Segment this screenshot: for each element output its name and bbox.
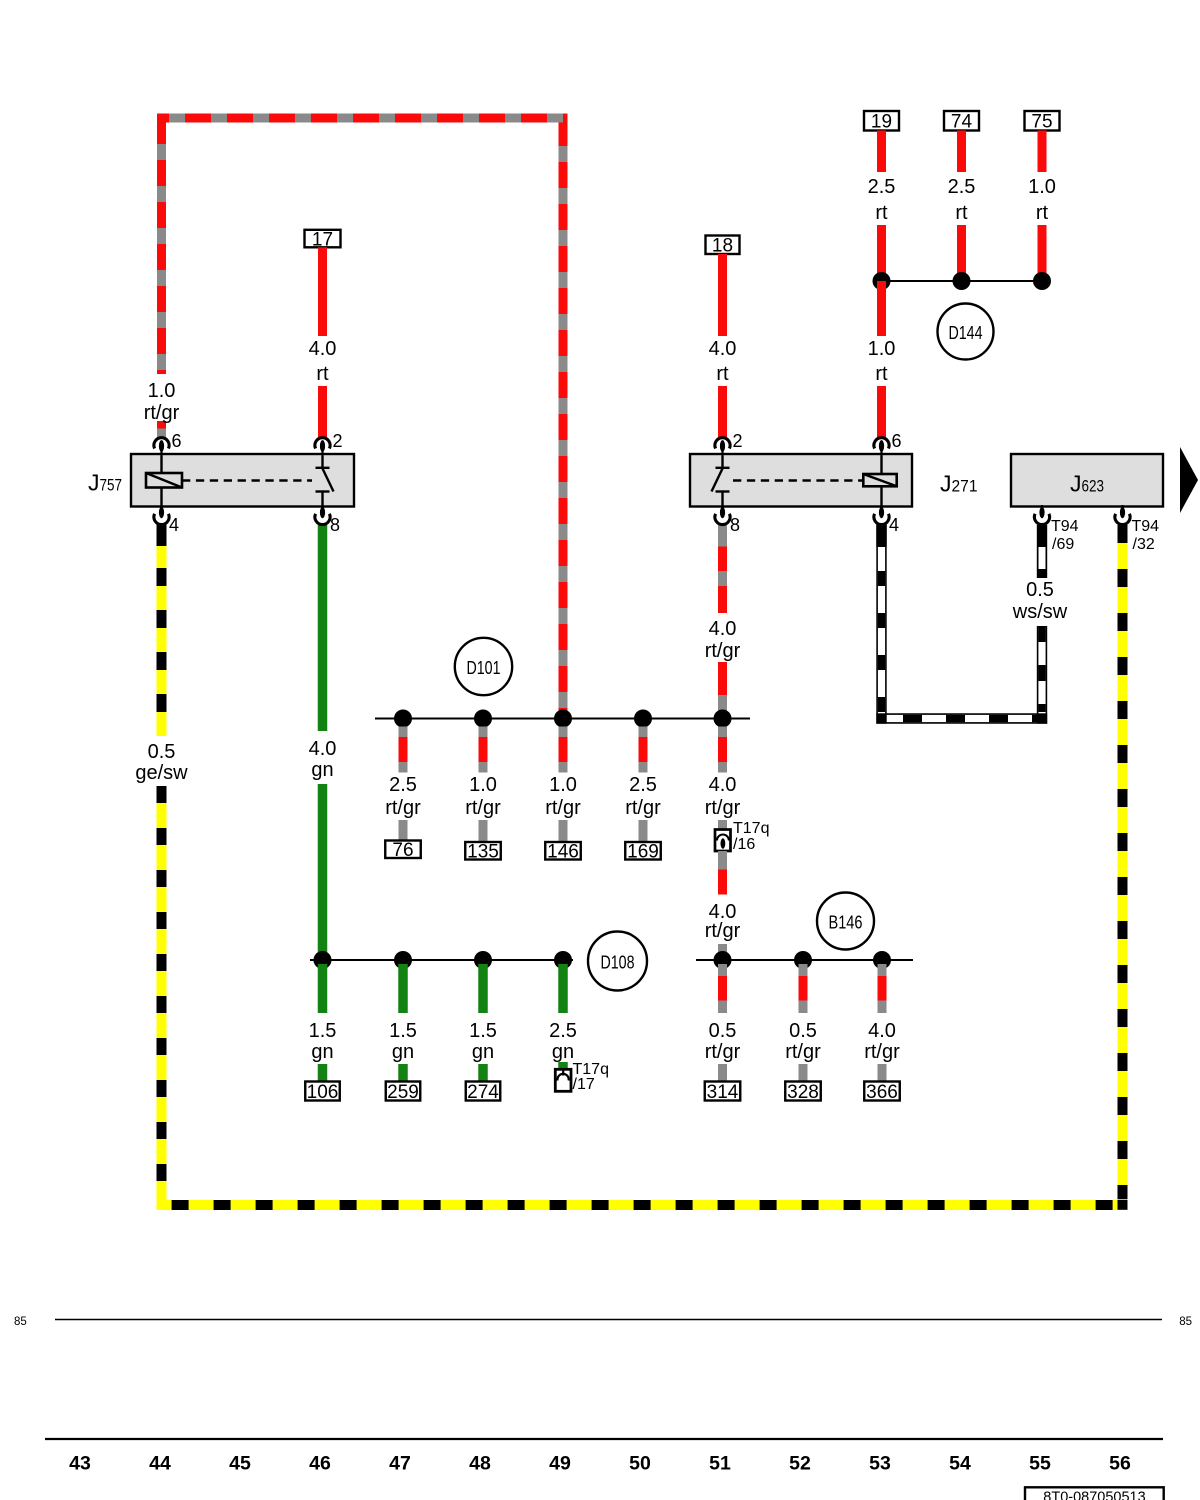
svg-text:rt/gr: rt/gr [705, 640, 741, 662]
svg-text:169: 169 [627, 842, 659, 863]
svg-text:1.5: 1.5 [389, 1020, 417, 1042]
svg-text:50: 50 [629, 1453, 651, 1475]
svg-text:/69: /69 [1052, 536, 1074, 553]
svg-text:17: 17 [312, 229, 333, 250]
svg-text:rt/gr: rt/gr [144, 402, 180, 424]
svg-text:0.5: 0.5 [148, 741, 176, 763]
svg-text:rt: rt [955, 202, 968, 224]
svg-text:4: 4 [169, 515, 179, 535]
svg-text:1.0: 1.0 [868, 338, 896, 360]
svg-text:T17q: T17q [733, 820, 769, 837]
svg-text:/16: /16 [733, 836, 755, 853]
svg-text:D108: D108 [601, 952, 635, 973]
svg-text:ge/sw: ge/sw [135, 762, 188, 784]
svg-text:T94: T94 [1051, 518, 1079, 535]
svg-text:56: 56 [1109, 1453, 1131, 1475]
svg-text:6: 6 [172, 431, 182, 451]
svg-text:8T0-087050513: 8T0-087050513 [1043, 1490, 1145, 1500]
svg-text:rt/gr: rt/gr [785, 1041, 821, 1063]
svg-text:4.0: 4.0 [709, 618, 737, 640]
svg-text:4.0: 4.0 [709, 338, 737, 360]
svg-text:D144: D144 [949, 322, 983, 343]
svg-text:48: 48 [469, 1453, 491, 1475]
svg-text:47: 47 [389, 1453, 411, 1475]
svg-text:51: 51 [709, 1453, 731, 1475]
svg-text:49: 49 [549, 1453, 571, 1475]
svg-text:T94: T94 [1132, 518, 1160, 535]
svg-text:8: 8 [730, 515, 740, 535]
svg-text:rt/gr: rt/gr [705, 1041, 741, 1063]
svg-text:8: 8 [330, 515, 340, 535]
svg-text:146: 146 [547, 842, 579, 863]
svg-text:rt/gr: rt/gr [385, 797, 421, 819]
svg-text:54: 54 [949, 1453, 971, 1475]
svg-text:45: 45 [229, 1453, 251, 1475]
svg-text:0.5: 0.5 [1026, 579, 1054, 601]
svg-text:74: 74 [951, 112, 973, 133]
svg-text:1.0: 1.0 [469, 774, 497, 796]
svg-text:76: 76 [392, 840, 413, 861]
svg-text:4.0: 4.0 [709, 774, 737, 796]
svg-text:rt: rt [875, 363, 888, 385]
svg-text:274: 274 [467, 1082, 499, 1103]
svg-text:0.5: 0.5 [789, 1020, 817, 1042]
svg-text:rt/gr: rt/gr [465, 797, 501, 819]
svg-text:2: 2 [333, 431, 343, 451]
svg-text:19: 19 [871, 112, 892, 133]
svg-text:259: 259 [387, 1082, 419, 1103]
svg-text:52: 52 [789, 1453, 811, 1475]
svg-text:44: 44 [149, 1453, 171, 1475]
svg-text:2.5: 2.5 [948, 176, 976, 198]
svg-text:gn: gn [311, 1041, 333, 1063]
svg-text:43: 43 [69, 1453, 91, 1475]
svg-text:rt/gr: rt/gr [545, 797, 581, 819]
svg-text:gn: gn [392, 1041, 414, 1063]
svg-text:1.5: 1.5 [309, 1020, 337, 1042]
svg-text:D101: D101 [467, 657, 501, 678]
svg-text:18: 18 [712, 236, 733, 257]
svg-text:1.5: 1.5 [469, 1020, 497, 1042]
svg-text:2.5: 2.5 [549, 1020, 577, 1042]
svg-text:gn: gn [311, 759, 333, 781]
svg-text:rt: rt [875, 202, 888, 224]
svg-text:rt/gr: rt/gr [705, 920, 741, 942]
svg-text:55: 55 [1029, 1453, 1051, 1475]
svg-text:/17: /17 [573, 1076, 595, 1093]
svg-text:rt/gr: rt/gr [864, 1041, 900, 1063]
svg-text:0.5: 0.5 [709, 1020, 737, 1042]
svg-text:ws/sw: ws/sw [1012, 601, 1068, 623]
svg-text:85: 85 [1179, 1316, 1192, 1328]
svg-text:rt: rt [716, 363, 729, 385]
svg-text:rt: rt [316, 363, 329, 385]
svg-text:rt/gr: rt/gr [705, 797, 741, 819]
svg-text:4.0: 4.0 [309, 338, 337, 360]
svg-text:/32: /32 [1133, 536, 1155, 553]
svg-text:46: 46 [309, 1453, 331, 1475]
svg-text:gn: gn [472, 1041, 494, 1063]
svg-text:4: 4 [889, 515, 899, 535]
svg-text:2.5: 2.5 [629, 774, 657, 796]
svg-text:B146: B146 [829, 912, 863, 933]
svg-text:gn: gn [552, 1041, 574, 1063]
svg-text:4.0: 4.0 [868, 1020, 896, 1042]
svg-text:85: 85 [14, 1316, 27, 1328]
svg-text:2.5: 2.5 [868, 176, 896, 198]
svg-text:1.0: 1.0 [549, 774, 577, 796]
svg-text:53: 53 [869, 1453, 891, 1475]
svg-text:106: 106 [307, 1082, 339, 1103]
svg-text:75: 75 [1031, 112, 1052, 133]
svg-text:328: 328 [787, 1082, 819, 1103]
svg-text:6: 6 [892, 431, 902, 451]
svg-text:4.0: 4.0 [309, 738, 337, 760]
svg-text:2: 2 [733, 431, 743, 451]
svg-text:rt: rt [1036, 202, 1049, 224]
svg-text:135: 135 [467, 842, 499, 863]
svg-text:2.5: 2.5 [389, 774, 417, 796]
svg-text:1.0: 1.0 [1028, 176, 1056, 198]
svg-text:314: 314 [707, 1082, 739, 1103]
svg-text:1.0: 1.0 [148, 380, 176, 402]
svg-text:366: 366 [866, 1082, 898, 1103]
svg-text:rt/gr: rt/gr [625, 797, 661, 819]
